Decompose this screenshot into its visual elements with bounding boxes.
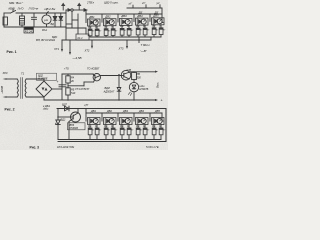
stage cell B3 xyxy=(118,109,134,139)
wire: fig1 chain upper rail right xyxy=(127,7,162,9)
svg-text:НТ2-НОК ЛУЕ: НТ2-НОК ЛУЕ xyxy=(57,145,74,149)
wire: fig2 top rail xyxy=(62,73,93,75)
svg-text:ХТ2: ХТ2 xyxy=(84,49,90,53)
capacitor C1 xyxy=(33,13,35,17)
svg-text:0,8В: 0,8В xyxy=(127,70,132,72)
junction dots xyxy=(118,99,120,101)
svg-text:Б”: Б” xyxy=(124,130,126,132)
probe XT1 xyxy=(61,40,63,50)
svg-text:Б”: Б” xyxy=(115,130,117,132)
wire: T601 stub xyxy=(138,37,140,43)
test pin triangle 1 xyxy=(61,3,65,6)
svg-text:SB1 “Вкл.”: SB1 “Вкл.” xyxy=(9,1,24,5)
resistor R2 xyxy=(66,88,70,95)
connector X2 pair xyxy=(84,9,87,12)
svg-text:VT1 КТ815Г: VT1 КТ815Г xyxy=(75,87,90,91)
label VD1 bridge xyxy=(37,73,57,80)
terminal stub 1 xyxy=(132,5,134,8)
wire: fig3 chain second rail xyxy=(85,109,87,114)
wire: h y20 xyxy=(72,19,78,21)
svg-text:ДВ4: ДВ4 xyxy=(136,14,143,18)
svg-text:ДВ’: ДВ’ xyxy=(154,11,159,14)
wire: fig2 bottom rail xyxy=(44,99,155,101)
transistor VT2 xyxy=(121,70,131,80)
svg-text:—4,5В: —4,5В xyxy=(72,56,82,60)
svg-text:Б”: Б” xyxy=(131,130,133,132)
svg-text:+: + xyxy=(57,80,59,84)
svg-text:КЦ405Е: КЦ405Е xyxy=(38,77,48,81)
svg-text:ХТ1: ХТ1 xyxy=(53,47,59,51)
stage cell A4 xyxy=(134,14,150,37)
svg-text:Б”: Б” xyxy=(131,30,133,32)
svg-text:ДВ’: ДВ’ xyxy=(138,11,143,14)
wire: fig2 left riser xyxy=(61,74,63,100)
label box VT6 xyxy=(68,123,86,130)
battery GB1 xyxy=(20,16,25,25)
svg-text:ВДО: ВДО xyxy=(52,36,57,39)
svg-text:Б”: Б” xyxy=(108,130,110,132)
relay box K1 xyxy=(76,34,89,40)
svg-text:Рис. 1: Рис. 1 xyxy=(7,50,17,54)
svg-text:ДВ3: ДВ3 xyxy=(122,109,128,113)
wire: fig1 chain top rail xyxy=(86,13,162,15)
wire: chain right vertical B xyxy=(161,113,163,121)
svg-text:ДВ3: ДВ3 xyxy=(120,14,127,18)
wire: probe bus y40 xyxy=(62,39,151,41)
svg-text:АД503АГ: АД503АГ xyxy=(103,89,115,93)
svg-text:2ТВ’л: 2ТВ’л xyxy=(86,1,95,5)
wire: fig1 bottom rail xyxy=(4,26,66,28)
diode VD1 xyxy=(54,13,56,17)
transformer core xyxy=(20,78,22,99)
probe XT2 xyxy=(91,40,93,46)
zener VD5 xyxy=(56,120,60,125)
svg-text:НАи: НАи xyxy=(140,84,146,88)
svg-text:+: + xyxy=(161,98,163,102)
stage cell B2 xyxy=(102,109,118,139)
svg-text:ул’: ул’ xyxy=(156,1,161,5)
svg-text:ТО АСВВГ: ТО АСВВГ xyxy=(87,67,100,71)
wire: chain right vertical A xyxy=(161,14,163,23)
svg-text:R3 240: R3 240 xyxy=(25,29,34,33)
stage cell B1 xyxy=(86,109,102,139)
resistor R3 xyxy=(133,71,135,74)
wire: base line xyxy=(68,85,84,87)
svg-text:ДВ2: ДВ2 xyxy=(106,109,112,113)
wire: chain bottom rail A xyxy=(90,36,161,38)
wire: fig1 top rail xyxy=(4,12,11,14)
svg-text:ВД2: ВД2 xyxy=(61,117,66,121)
value callout box R3 xyxy=(24,27,34,33)
svg-text:Лг’О: Лг’О xyxy=(17,6,25,10)
svg-text:Т 601.г: Т 601.г xyxy=(141,43,151,47)
svg-text:АЛ307Б: АЛ307Б xyxy=(138,87,149,91)
svg-text:Б”: Б” xyxy=(99,130,101,132)
svg-text:цТГ: цТГ xyxy=(84,104,89,107)
svg-text:ХР1: ХР1 xyxy=(2,71,9,75)
stage cell A5 xyxy=(150,14,166,37)
svg-text:ВД: ВД xyxy=(51,22,55,26)
svg-text:Б”: Б” xyxy=(99,31,101,33)
switch SB1 xyxy=(11,11,16,14)
terminal stub 2 xyxy=(145,5,147,8)
stage cell B5 xyxy=(150,109,166,139)
svg-text:Т1: Т1 xyxy=(21,71,25,75)
svg-text:Б”: Б” xyxy=(108,30,110,32)
diode VD4 on rail xyxy=(65,106,70,111)
LED HL1 xyxy=(133,80,135,83)
wire: vertical x78 xyxy=(77,14,79,34)
svg-text:Б”: Б” xyxy=(156,29,158,31)
svg-text:Б”: Б” xyxy=(140,130,142,132)
svg-text:Б”: Б” xyxy=(163,130,165,132)
transformer T1 primary xyxy=(17,79,18,97)
svg-text:хУ’: хУ’ xyxy=(141,1,146,5)
svg-text:Б”: Б” xyxy=(156,130,158,132)
wire: VT6 base xyxy=(58,116,71,118)
wire: chain bottom rail B xyxy=(90,139,161,141)
wire: zener branch xyxy=(57,109,59,121)
resistor R1 xyxy=(3,17,8,25)
transistor VT6 xyxy=(71,112,81,122)
svg-text:хУ’: хУ’ xyxy=(128,2,133,6)
stage cell A1 xyxy=(86,14,102,37)
wire: fig3 top rail xyxy=(57,108,166,110)
stage cell B4 xyxy=(134,109,150,139)
microammeter PA1 xyxy=(42,15,51,24)
svg-text:“—В”: “—В” xyxy=(140,49,148,53)
wire: vertical x72 xyxy=(71,12,73,28)
svg-text:Б”: Б” xyxy=(140,30,142,32)
wire: h y24 xyxy=(66,23,72,25)
svg-text:ЛТС: ЛТС xyxy=(42,107,48,111)
svg-text:ДВ1: ДВ1 xyxy=(88,15,95,19)
svg-text:ЦВ2-5 щел.: ЦВ2-5 щел. xyxy=(104,1,119,5)
svg-text:КБ’О: КБ’О xyxy=(9,6,16,10)
wire: h y28 xyxy=(66,27,86,29)
svg-text:к ДБ1: к ДБ1 xyxy=(43,104,50,108)
test pin triangle 2 xyxy=(77,3,81,6)
svg-text:Б”: Б” xyxy=(147,30,149,32)
svg-text:Б”: Б” xyxy=(115,30,117,32)
wire: fig1 chain feed rail xyxy=(85,10,87,14)
connector X1 pair xyxy=(65,10,67,13)
bridge rectifier VD1 xyxy=(36,81,52,97)
wire: v x86 xyxy=(85,28,87,34)
plug XP1 xyxy=(3,78,7,80)
svg-text:ХТ3: ХТ3 xyxy=(118,47,124,51)
svg-text:+ТО: +ТО xyxy=(64,67,69,70)
stage cell A2 xyxy=(102,14,118,37)
svg-text:510: 510 xyxy=(71,91,76,95)
svg-text:300: 300 xyxy=(137,75,142,79)
wire: fig3 bottom rail xyxy=(58,139,90,141)
wire: vertical x66 xyxy=(65,13,67,40)
svg-text:К1.1: К1.1 xyxy=(78,36,84,40)
svg-text:ДВ1: ДВ1 xyxy=(90,109,96,113)
svg-text:Б”: Б” xyxy=(163,29,165,31)
diode VD3 xyxy=(118,76,120,88)
svg-text:5.ОО.1 ГЕ: 5.ОО.1 ГЕ xyxy=(146,145,159,149)
wire: bridge out xyxy=(52,88,62,90)
terminal stub 3 xyxy=(159,5,161,8)
svg-text:Л 03-чн: Л 03-чн xyxy=(28,7,39,11)
svg-text:ЦВ 2-5м: ЦВ 2-5м xyxy=(45,7,56,11)
svg-text:ДВ2: ДВ2 xyxy=(104,15,111,19)
svg-text:2К: 2К xyxy=(70,79,74,83)
svg-text:РА1: РА1 xyxy=(42,28,47,32)
svg-text:Б”: Б” xyxy=(147,130,149,132)
svg-text:Рис. 2: Рис. 2 xyxy=(5,108,15,112)
diode VD2 xyxy=(60,13,62,17)
wire: fig2 output top xyxy=(131,71,155,73)
svg-text:Б”: Б” xyxy=(124,30,126,32)
svg-text:~220В: ~220В xyxy=(0,86,4,94)
svg-text:Вых.: Вых. xyxy=(156,82,160,88)
wire: R divider vertical xyxy=(67,74,69,76)
wire: fig1 left vertical xyxy=(3,13,5,27)
svg-text:АТ361В: АТ361В xyxy=(68,126,78,130)
svg-text:Б”: Б” xyxy=(92,130,94,132)
probe XT3 xyxy=(126,40,128,47)
svg-text:ДВ4: ДВ4 xyxy=(138,109,144,113)
svg-text:ВД7: ВД7 xyxy=(62,103,67,107)
resistor R1 xyxy=(66,76,70,83)
wire: fig3 right border xyxy=(165,109,167,142)
wire: chain return riser xyxy=(150,37,152,40)
transformer T1 secondary xyxy=(25,79,26,97)
svg-text:ДВ5: ДВ5 xyxy=(154,109,160,113)
transistor VT1 xyxy=(93,74,100,81)
svg-text:ВДИ: ВДИ xyxy=(105,86,110,90)
svg-text:Рис. 3: Рис. 3 xyxy=(30,146,40,150)
stage cell A3 xyxy=(118,14,134,37)
svg-text:Б”: Б” xyxy=(92,31,94,33)
probe minus 4.5V xyxy=(69,40,71,53)
